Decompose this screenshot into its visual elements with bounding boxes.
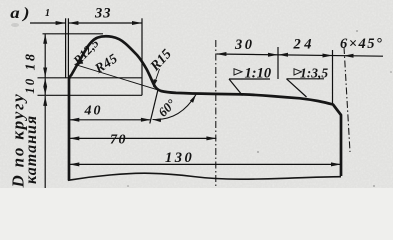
- svg-text:70: 70: [110, 133, 127, 148]
- svg-text:30: 30: [234, 37, 255, 53]
- svg-text:1: 1: [45, 8, 50, 19]
- svg-text:18: 18: [24, 52, 39, 71]
- svg-text:40: 40: [84, 104, 103, 119]
- svg-text:24: 24: [293, 37, 316, 53]
- svg-text:1:10: 1:10: [245, 66, 272, 82]
- svg-text:катания: катания: [23, 115, 40, 184]
- svg-text:1:3,5: 1:3,5: [300, 66, 328, 81]
- svg-text:6×45°: 6×45°: [340, 36, 383, 52]
- svg-text:а): а): [10, 3, 33, 21]
- svg-text:10: 10: [22, 77, 37, 94]
- svg-text:130: 130: [165, 150, 194, 166]
- svg-text:33: 33: [94, 6, 112, 22]
